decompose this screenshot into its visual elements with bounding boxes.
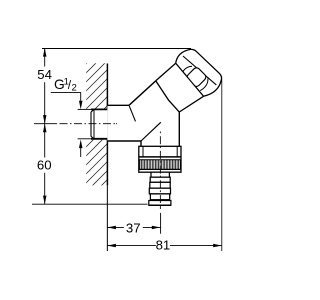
- bonnet left edge: [156, 63, 176, 81]
- hose barb end bead: [149, 201, 171, 206]
- wall face line: [106, 64, 108, 186]
- arrowheads 54/60: [43, 48, 47, 57]
- svg-text:54: 54: [37, 67, 52, 82]
- barrel/body intersection line: [141, 122, 161, 141]
- dimension 81: [107, 245, 221, 247]
- extension line outlet axis: [160, 213, 162, 234]
- dimension 37: [107, 226, 160, 228]
- hose barb rings: [151, 172, 169, 177]
- knurl band: [139, 159, 181, 161]
- bonnet collar: [156, 63, 204, 112]
- cap outline: [176, 49, 222, 96]
- extension line 81 right (from cap): [221, 79, 223, 251]
- body right edge: [178, 112, 180, 146]
- body left edge: [140, 141, 142, 146]
- top extension line: [42, 48, 191, 50]
- svg-text:37: 37: [126, 220, 141, 235]
- svg-text:81: 81: [156, 238, 171, 253]
- cap chamfer arc upper-left: [181, 66, 192, 76]
- boss/barrel intersection line: [129, 106, 135, 122]
- svg-text:60: 60: [37, 158, 52, 173]
- G1/2 leader + arrows: [51, 93, 81, 101]
- cap top-face inner band line: [183, 56, 216, 85]
- G1/2 threaded nipple: [91, 109, 107, 138]
- dimension line 54/60 vertical: [44, 48, 46, 204]
- inlet boss bottom edge: [107, 140, 141, 142]
- bonnet right edge: [179, 96, 203, 112]
- barrel upper-left edge (45deg): [129, 81, 156, 106]
- nut chamfer lines: [142, 146, 144, 156]
- outlet centerline: [159, 132, 161, 210]
- inlet centerline: [34, 123, 117, 125]
- union nut body: [139, 146, 181, 172]
- bottom extension line (60): [32, 203, 148, 205]
- nut shoulder line: [139, 156, 181, 158]
- inlet boss top edge: [107, 104, 129, 106]
- transverse re-stroke: [156, 81, 180, 112]
- cap chamfer arc lower-right: [200, 78, 208, 90]
- cap dome facet square: [186, 66, 207, 87]
- G1/2 extension lines: [78, 108, 91, 110]
- svg-text:2: 2: [72, 82, 77, 93]
- valve body fill: [107, 81, 179, 147]
- bonnet base edge (cap base): [176, 63, 204, 96]
- extension line wall face down to dims: [106, 185, 108, 251]
- barrel end transverse line: [156, 81, 180, 112]
